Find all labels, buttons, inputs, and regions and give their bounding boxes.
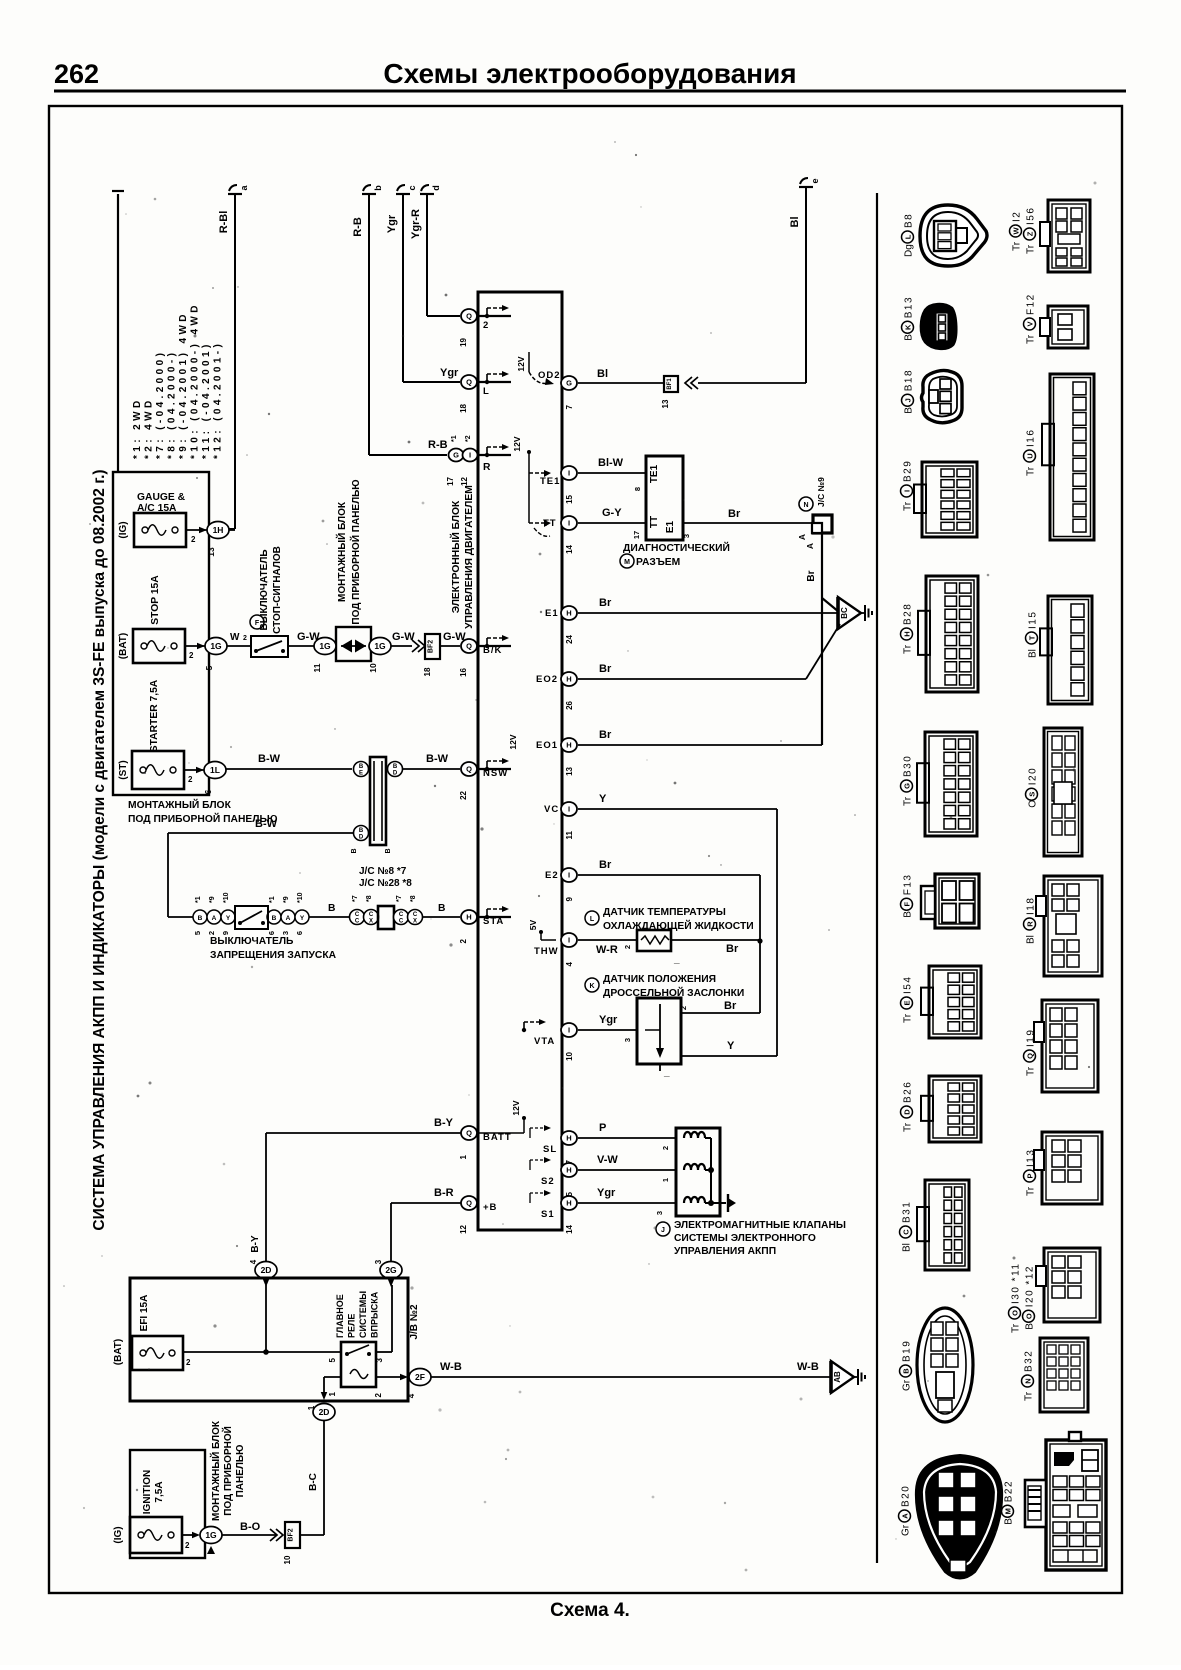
svg-text:*7: (-04.2000): *7: (-04.2000) [155,350,166,459]
svg-text:Br: Br [599,663,612,675]
svg-text:E2: E2 [545,870,559,881]
svg-text:12: 12 [459,1224,468,1233]
svg-text:BF2: BF2 [288,1528,295,1541]
svg-text:EFI 15A: EFI 15A [139,1295,150,1332]
svg-text:*12: (04.2001-): *12: (04.2001-) [213,341,224,459]
svg-text:2: 2 [188,775,193,784]
svg-text:5V: 5V [528,919,538,930]
svg-text:Q: Q [466,642,472,651]
svg-text:B13: B13 [904,296,915,318]
svg-text:B-W: B-W [426,753,449,765]
svg-text:*8: *8 [366,895,373,902]
svg-text:B: B [351,848,358,853]
svg-text:+B: +B [483,1202,497,1213]
svg-text:Gr: Gr [902,1379,913,1391]
svg-text:2: 2 [185,1541,190,1550]
svg-text:B-Y: B-Y [434,1117,454,1129]
svg-text:I: I [568,519,570,528]
svg-text:B22: B22 [1004,1480,1015,1502]
svg-text:B20: B20 [901,1485,912,1507]
svg-text:Tr: Tr [903,501,914,511]
svg-text:H: H [566,675,571,684]
svg-text:*10: *10 [223,892,230,903]
svg-text:D: D [359,835,364,841]
svg-text:H: H [566,609,571,618]
svg-text:2F: 2F [415,1372,425,1382]
svg-text:Br: Br [599,859,612,871]
svg-text:*2: *2 [465,435,472,442]
svg-text:H: H [566,1166,571,1175]
svg-text:*9: *9 [283,896,290,903]
svg-text:H: H [466,913,471,922]
svg-text:I56: I56 [1026,207,1037,225]
svg-text:Tr: Tr [903,644,914,654]
svg-text:B-Y: B-Y [250,1235,261,1253]
svg-text:IGNITION: IGNITION [142,1470,153,1514]
svg-text:B30: B30 [903,755,914,777]
svg-text:R: R [1026,921,1035,927]
svg-text:I: I [568,936,570,945]
svg-text:B: B [438,903,445,914]
svg-text:B29: B29 [903,460,914,482]
svg-text:2: 2 [483,320,489,331]
svg-text:19: 19 [459,337,468,346]
svg-text:Tr: Tr [903,1013,914,1023]
svg-text:EO1: EO1 [536,740,558,751]
svg-text:12V: 12V [516,356,526,371]
svg-text:EO2: EO2 [536,674,558,685]
svg-text:12: 12 [460,476,469,485]
svg-text:K: K [589,983,594,990]
svg-text:L: L [483,386,490,397]
svg-text:K: K [904,324,913,330]
svg-text:5: 5 [204,665,214,670]
svg-text:2: 2 [189,651,194,660]
svg-text:Tr: Tr [1026,466,1037,476]
svg-text:O: O [1011,1310,1020,1316]
svg-text:J/C №9: J/C №9 [816,477,826,507]
svg-text:P: P [1026,1173,1035,1178]
svg-text:B: B [359,764,364,770]
svg-text:ЗАПРЕЩЕНИЯ ЗАПУСКА: ЗАПРЕЩЕНИЯ ЗАПУСКА [210,950,337,961]
svg-text:I30 *11: I30 *11 [1011,1263,1022,1304]
svg-text:E: E [359,771,363,777]
svg-text:6: 6 [267,931,276,935]
svg-text:ЭЛЕКТРОМАГНИТНЫЕ КЛАПАНЫ: ЭЛЕКТРОМАГНИТНЫЕ КЛАПАНЫ [674,1220,846,1231]
svg-text:B: B [328,903,335,914]
svg-text:16: 16 [459,667,468,676]
svg-text:11: 11 [565,830,574,839]
svg-text:Q: Q [466,765,472,774]
svg-text:O: O [1025,1313,1034,1319]
svg-text:B19: B19 [902,1340,913,1362]
svg-text:W: W [230,632,240,643]
svg-text:I: I [903,490,912,492]
svg-text:(BAT): (BAT) [118,633,129,659]
svg-text:I16: I16 [1026,429,1037,447]
svg-text:*9: (-04.2001) 4WD: *9: (-04.2001) 4WD [178,311,189,459]
svg-text:J/C №8 *7: J/C №8 *7 [359,866,407,877]
svg-text:GAUGE &: GAUGE & [137,492,186,503]
svg-text:Tr: Tr [1012,241,1023,251]
svg-text:L: L [590,916,595,923]
svg-text:2: 2 [243,635,247,642]
svg-text:ВЫКЛЮЧАТЕЛЬ: ВЫКЛЮЧАТЕЛЬ [259,549,270,630]
svg-text:D: D [393,771,398,777]
svg-text:B: B [1025,1323,1036,1330]
svg-text:A: A [212,915,217,922]
svg-text:B: B [272,915,277,922]
svg-text:Y: Y [599,793,607,805]
svg-text:13: 13 [565,766,574,775]
svg-text:V: V [1026,321,1035,326]
svg-text:1: 1 [459,1154,468,1159]
svg-text:P: P [599,1122,606,1134]
svg-text:ЭЛЕКТРОННЫЙ БЛОК: ЭЛЕКТРОННЫЙ БЛОК [449,500,462,613]
svg-text:C: C [355,912,360,918]
svg-text:1: 1 [328,1391,337,1396]
svg-text:2: 2 [679,1006,688,1010]
svg-text:B18: B18 [904,369,915,391]
svg-text:Ygr: Ygr [599,1014,618,1026]
svg-text:B: B [904,407,915,414]
svg-text:OD2: OD2 [538,370,561,381]
svg-text:X: X [413,919,417,925]
svg-text:Br: Br [599,729,612,741]
svg-text:Br: Br [726,943,739,955]
svg-text:*1: 2WD: *1: 2WD [132,397,143,459]
svg-text:РАЗЪЕМ: РАЗЪЕМ [636,557,680,568]
svg-text:*11: (-04.2001): *11: (-04.2001) [201,341,212,459]
svg-text:STOP 15A: STOP 15A [150,575,161,625]
svg-text:I18: I18 [1026,897,1037,915]
svg-text:*1: *1 [451,435,458,442]
svg-text:Bl: Bl [597,368,608,380]
svg-text:Q: Q [466,312,472,321]
svg-text:d: d [431,185,441,191]
svg-text:12V: 12V [508,734,518,749]
svg-text:9: 9 [221,931,230,935]
svg-text:B-C: B-C [308,1473,319,1491]
svg-text:I54: I54 [903,976,914,994]
svg-text:I2: I2 [1012,211,1023,222]
svg-text:14: 14 [565,544,574,553]
svg-text:D: D [903,1109,912,1115]
svg-text:G: G [453,451,459,460]
svg-text:Tr: Tr [1026,1186,1037,1196]
svg-text:5: 5 [193,931,202,935]
svg-text:ПАНЕЛЬЮ: ПАНЕЛЬЮ [235,1445,246,1498]
svg-text:I20 *12: I20 *12 [1025,1265,1036,1307]
svg-text:B32: B32 [1024,1350,1035,1372]
svg-text:11: 11 [312,663,322,672]
svg-text:26: 26 [565,700,574,709]
svg-text:2: 2 [661,1146,670,1150]
svg-text:2: 2 [623,945,632,949]
svg-text:Tr: Tr [1011,1323,1022,1333]
svg-text:I20: I20 [1028,767,1039,785]
svg-text:12V: 12V [511,1100,521,1115]
svg-text:X: X [369,919,373,925]
svg-text:(IG): (IG) [113,1526,124,1543]
svg-text:V-W: V-W [597,1154,618,1166]
svg-text:6: 6 [203,789,213,794]
svg-text:B-W: B-W [258,753,281,765]
svg-text:TE1: TE1 [540,476,560,487]
svg-text:6: 6 [295,931,304,935]
svg-text:*8: *8 [410,895,417,902]
svg-text:R-Bl: R-Bl [218,211,230,234]
svg-text:B: B [902,1368,911,1374]
svg-text:b: b [373,185,383,191]
svg-text:Bl-W: Bl-W [598,457,624,469]
svg-text:VC: VC [544,804,559,815]
svg-text:ПОД ПРИБОРНОЙ: ПОД ПРИБОРНОЙ [221,1426,234,1516]
svg-text:TE1: TE1 [649,464,660,483]
svg-text:3: 3 [375,1357,384,1362]
svg-text:1G: 1G [210,641,222,651]
svg-text:B: B [359,828,364,834]
svg-text:E: E [903,1000,912,1005]
svg-text:H: H [566,1134,571,1143]
svg-text:B: B [904,334,915,341]
svg-text:e: e [810,178,820,183]
svg-text:ДАТЧИК ПОЛОЖЕНИЯ: ДАТЧИК ПОЛОЖЕНИЯ [603,974,716,985]
svg-text:VTA: VTA [534,1036,555,1047]
svg-text:W-R: W-R [596,944,618,956]
svg-text:M: M [1004,1508,1013,1514]
svg-text:R: R [483,462,491,473]
svg-text:10: 10 [565,1051,574,1060]
svg-text:7,5A: 7,5A [154,1481,165,1502]
svg-text:СИСТЕМЫ ЭЛЕКТРОННОГО: СИСТЕМЫ ЭЛЕКТРОННОГО [674,1233,816,1244]
svg-text:2: 2 [191,535,196,544]
svg-text:Схемы электрооборудования: Схемы электрооборудования [383,58,796,89]
svg-text:B-R: B-R [434,1187,454,1199]
svg-text:РЕЛЕ: РЕЛЕ [347,1314,357,1338]
svg-text:Bl: Bl [902,1243,913,1252]
svg-text:Tr: Tr [1026,244,1037,254]
svg-text:Ygr: Ygr [386,214,398,233]
svg-text:J/C №28 *8: J/C №28 *8 [359,878,412,889]
svg-text:H: H [903,631,912,636]
svg-text:МОНТАЖНЫЙ БЛОК: МОНТАЖНЫЙ БЛОК [128,798,232,811]
svg-text:10: 10 [283,1555,292,1564]
svg-text:I15: I15 [1028,611,1039,629]
svg-text:8: 8 [633,487,642,491]
svg-text:2: 2 [459,938,468,943]
svg-text:1G: 1G [205,1530,217,1540]
svg-text:C: C [413,912,418,918]
svg-text:ДИАГНОСТИЧЕСКИЙ: ДИАГНОСТИЧЕСКИЙ [623,541,730,554]
svg-text:S1: S1 [541,1209,555,1220]
svg-text:3: 3 [623,1038,632,1042]
svg-text:W: W [1012,227,1021,235]
svg-text:B-W: B-W [255,818,278,830]
svg-text:L: L [904,234,913,239]
svg-text:*7: *7 [396,895,403,902]
svg-text:B: B [393,764,398,770]
svg-text:2G: 2G [385,1265,397,1275]
svg-text:Q: Q [466,1129,472,1138]
svg-text:H: H [566,1199,571,1208]
svg-text:Ygr: Ygr [440,367,459,379]
svg-text:(IG): (IG) [118,521,129,538]
svg-text:ВПРЫСКА: ВПРЫСКА [370,1291,380,1338]
svg-text:1G: 1G [319,641,331,651]
svg-text:*1: *1 [195,896,202,903]
svg-text:*7: *7 [352,895,359,902]
svg-text:(BAT): (BAT) [113,1339,124,1365]
svg-text:G: G [566,379,572,388]
svg-text:I: I [469,451,471,460]
svg-text:2D: 2D [261,1265,272,1275]
svg-text:ВЫКЛЮЧАТЕЛЬ: ВЫКЛЮЧАТЕЛЬ [210,936,294,947]
svg-text:B: B [903,911,914,918]
svg-text:Br: Br [599,597,612,609]
svg-text:12V: 12V [512,436,522,451]
svg-text:S: S [1028,792,1037,797]
svg-text:AB: AB [833,1371,842,1383]
svg-text:5: 5 [328,1357,337,1362]
svg-text:Q: Q [1026,1053,1035,1059]
svg-text:Br: Br [728,508,741,520]
svg-text:13: 13 [661,399,670,408]
svg-text:(ST): (ST) [118,760,129,779]
svg-text:МОНТАЖНЫЙ БЛОК: МОНТАЖНЫЙ БЛОК [335,501,348,602]
svg-text:B8: B8 [904,213,915,228]
svg-text:17: 17 [446,476,455,485]
svg-text:C: C [902,1229,911,1235]
svg-text:УПРАВЛЕНИЯ АКПП: УПРАВЛЕНИЯ АКПП [674,1246,776,1257]
svg-text:2: 2 [374,1392,383,1397]
svg-text:SL: SL [543,1144,557,1155]
svg-text:F12: F12 [1026,293,1037,315]
svg-text:*1: *1 [269,896,276,903]
svg-text:Z: Z [1026,231,1035,236]
svg-text:3: 3 [374,1259,383,1264]
svg-text:I: I [568,871,570,880]
svg-text:T: T [1028,635,1037,640]
svg-text:Ygr: Ygr [597,1187,616,1199]
svg-text:1: 1 [307,1405,316,1410]
svg-text:G-W: G-W [392,631,415,643]
svg-text:Br: Br [806,570,817,581]
svg-text:Tr: Tr [1026,334,1037,344]
svg-text:СТОП-СИГНАЛОВ: СТОП-СИГНАЛОВ [272,546,283,634]
svg-text:A: A [286,915,291,922]
svg-text:ПОД ПРИБОРНОЙ ПАНЕЛЬЮ: ПОД ПРИБОРНОЙ ПАНЕЛЬЮ [349,479,362,624]
svg-text:Bl: Bl [789,217,801,228]
svg-text:2: 2 [207,931,216,935]
svg-text:2: 2 [186,1358,191,1367]
svg-text:18: 18 [459,403,468,412]
svg-text:_: _ [673,954,680,965]
svg-text:22: 22 [459,790,468,799]
svg-text:Gr: Gr [901,1524,912,1536]
svg-text:МОНТАЖНЫЙ БЛОК: МОНТАЖНЫЙ БЛОК [209,1420,222,1521]
svg-text:14: 14 [565,1224,574,1233]
svg-text:*10: (04.2000-) 4WD: *10: (04.2000-) 4WD [190,302,201,459]
svg-text:17: 17 [632,531,641,539]
svg-text:9: 9 [565,896,574,901]
svg-text:B28: B28 [903,603,914,625]
svg-text:A: A [805,543,815,549]
svg-text:I: I [568,469,570,478]
svg-text:Q: Q [466,378,472,387]
svg-text:Br: Br [724,1000,737,1012]
svg-text:B: B [1004,1518,1015,1525]
svg-text:1G: 1G [374,641,386,651]
svg-text:Tr: Tr [1026,1066,1037,1076]
svg-text:ДАТЧИК ТЕМПЕРАТУРЫ: ДАТЧИК ТЕМПЕРАТУРЫ [603,907,726,918]
svg-text:C: C [369,912,374,918]
svg-text:ОХЛАЖДАЮЩЕЙ ЖИДКОСТИ: ОХЛАЖДАЮЩЕЙ ЖИДКОСТИ [603,919,754,932]
svg-text:F13: F13 [903,874,914,896]
svg-text:E1: E1 [665,520,676,533]
svg-text:J/B №2: J/B №2 [409,1304,420,1339]
svg-text:R-B: R-B [352,217,364,237]
svg-text:BF2: BF2 [428,640,435,653]
svg-text:N: N [803,502,808,509]
svg-text:W-B: W-B [797,1361,819,1373]
svg-text:262: 262 [54,59,99,89]
svg-text:S2: S2 [541,1176,555,1187]
svg-text:F: F [903,902,912,907]
svg-text:Q: Q [466,1199,472,1208]
svg-text:15: 15 [565,494,574,503]
svg-text:BC: BC [840,607,849,619]
svg-text:3: 3 [281,931,290,935]
svg-text:B: B [198,915,203,922]
svg-text:G: G [903,783,912,789]
svg-text:Y: Y [727,1040,735,1052]
svg-text:Bl: Bl [1028,649,1039,658]
svg-text:I: I [568,1026,570,1035]
svg-text:B26: B26 [903,1081,914,1103]
svg-text:A: A [901,1513,910,1519]
svg-text:СИСТЕМА УПРАВЛЕНИЯ АКПП И ИНДИ: СИСТЕМА УПРАВЛЕНИЯ АКПП И ИНДИКАТОРЫ (мо… [91,469,108,1230]
svg-text:1: 1 [661,1178,670,1182]
svg-text:4: 4 [407,1393,416,1398]
svg-text:STARTER 7,5A: STARTER 7,5A [149,679,160,752]
svg-text:10: 10 [368,663,378,673]
svg-text:Y: Y [300,915,305,922]
svg-text:G-Y: G-Y [602,507,622,519]
svg-text:A: A [797,534,807,540]
svg-text:E1: E1 [545,608,559,619]
svg-text:TT: TT [649,516,660,528]
svg-text:M: M [624,559,630,566]
svg-text:*8: (04.2000-): *8: (04.2000-) [167,350,178,459]
svg-text:*2: 4WD: *2: 4WD [144,397,155,459]
svg-text:Dg: Dg [904,244,915,257]
svg-text:4: 4 [249,1259,258,1264]
svg-text:3: 3 [682,534,691,538]
svg-text:ДРОССЕЛЬНОЙ ЗАСЛОНКИ: ДРОССЕЛЬНОЙ ЗАСЛОНКИ [603,986,744,999]
svg-text:THW: THW [534,946,559,957]
svg-text:I: I [568,805,570,814]
svg-text:B31: B31 [902,1201,913,1223]
svg-text:3: 3 [655,1211,664,1215]
svg-text:*10: *10 [297,892,304,903]
svg-text:18: 18 [423,667,432,676]
svg-text:W-B: W-B [440,1361,462,1373]
svg-text:СИСТЕМЫ: СИСТЕМЫ [358,1291,368,1338]
svg-text:Tr: Tr [903,1122,914,1132]
svg-text:УПРАВЛЕНИЯ ДВИГАТЕЛЕМ: УПРАВЛЕНИЯ ДВИГАТЕЛЕМ [464,485,475,629]
svg-text:7: 7 [565,404,574,409]
